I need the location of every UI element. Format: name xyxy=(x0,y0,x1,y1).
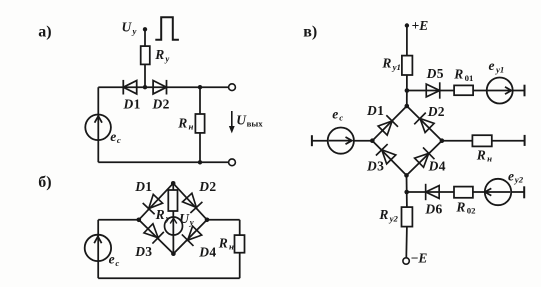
svg-text:e: e xyxy=(332,107,338,122)
wire D5 branch xyxy=(407,90,525,92)
source e_c circle xyxy=(85,115,111,141)
resistor R01 xyxy=(454,85,473,95)
node L v xyxy=(370,138,375,143)
source e_c circle b xyxy=(85,235,111,261)
diode D3 bridge v xyxy=(376,144,397,165)
wire B to Ry2 xyxy=(406,175,408,207)
svg-text:у2: у2 xyxy=(389,213,399,223)
svg-text:5: 5 xyxy=(437,66,444,81)
svg-text:U: U xyxy=(179,211,190,226)
wire L to left xyxy=(98,219,139,221)
node B v xyxy=(404,173,409,178)
svg-text:2: 2 xyxy=(163,96,170,111)
svg-text:4: 4 xyxy=(439,159,446,174)
svg-text:e: e xyxy=(489,58,495,73)
bridge v arm B-R xyxy=(407,141,442,176)
svg-text:e: e xyxy=(110,129,116,144)
svg-text:2: 2 xyxy=(209,179,216,194)
svg-text:н: н xyxy=(487,153,492,163)
source Uy circle xyxy=(165,217,183,235)
bridge v arm L-B xyxy=(372,141,406,176)
svg-text:с: с xyxy=(339,113,343,123)
svg-text:1: 1 xyxy=(145,179,152,194)
node T v xyxy=(405,104,410,109)
wire Rn branch v xyxy=(442,140,525,142)
diode D1 xyxy=(123,80,136,95)
resistor Ry b xyxy=(168,190,177,211)
node junction Rn bottom xyxy=(198,160,202,164)
svg-text:1: 1 xyxy=(134,96,141,111)
svg-text:−: − xyxy=(411,250,419,265)
wire right up xyxy=(239,220,241,278)
svg-text:3: 3 xyxy=(377,159,384,174)
bridge arm T-R xyxy=(173,183,207,220)
wire +E to Ry1 xyxy=(406,26,408,56)
svg-text:R: R xyxy=(476,147,486,162)
svg-text:R: R xyxy=(154,47,164,62)
terminal circle -E xyxy=(403,258,409,264)
svg-text:R: R xyxy=(455,199,465,214)
svg-text:D: D xyxy=(123,96,134,111)
resistor Ry2 xyxy=(402,207,413,227)
wire bottom xyxy=(98,161,228,163)
svg-text:у2: у2 xyxy=(514,175,524,185)
svg-text:R: R xyxy=(381,56,391,71)
svg-text:1: 1 xyxy=(377,103,384,118)
diode D6 xyxy=(426,184,440,200)
resistor R02 xyxy=(454,187,473,198)
svg-text:e: e xyxy=(508,168,514,183)
bridge arm L-T xyxy=(139,183,173,220)
svg-text:н: н xyxy=(229,242,234,252)
svg-text:R: R xyxy=(155,207,165,222)
source e_y1 arrow xyxy=(488,87,512,94)
svg-text:4: 4 xyxy=(209,244,216,259)
node junction diodes xyxy=(143,85,147,89)
node junction Rn top xyxy=(198,85,202,89)
terminal circle bottom xyxy=(229,159,236,166)
wire Ry2 to -E xyxy=(405,227,408,258)
resistor Rn v xyxy=(472,135,491,146)
svg-text:+: + xyxy=(412,18,420,33)
terminal bar e_y2 xyxy=(523,186,525,198)
svg-text:D: D xyxy=(198,179,209,194)
wire Ry to junction xyxy=(144,64,146,87)
svg-text:у1: у1 xyxy=(495,65,504,75)
arrow U_vyh xyxy=(231,111,233,129)
terminal bar Rn v xyxy=(524,135,526,146)
svg-text:D: D xyxy=(428,159,439,174)
node R b xyxy=(205,218,210,223)
node B b xyxy=(171,251,176,256)
svg-text:вых: вых xyxy=(247,119,264,129)
svg-text:у: у xyxy=(164,53,169,63)
pulse waveform icon xyxy=(155,17,179,40)
svg-text:D: D xyxy=(134,244,145,259)
node D6 branch xyxy=(404,190,409,195)
svg-text:D: D xyxy=(198,244,209,259)
svg-text:R: R xyxy=(453,67,463,82)
source e_c circle v xyxy=(328,128,354,154)
source Uy arrow xyxy=(170,218,177,223)
svg-text:3: 3 xyxy=(145,244,152,259)
diode D2 bridge b xyxy=(181,192,202,213)
wire Uy to Ry xyxy=(144,29,146,46)
svg-text:D: D xyxy=(426,66,437,81)
svg-text:D: D xyxy=(427,104,438,119)
wire Ry to Uy circle to B xyxy=(172,211,174,254)
resistor Ry xyxy=(141,46,150,64)
node R v xyxy=(440,138,445,143)
resistor Rn b xyxy=(235,235,245,253)
resistor Rn xyxy=(195,114,204,133)
svg-text:D: D xyxy=(366,103,377,118)
svg-text:2: 2 xyxy=(438,104,445,119)
node D5 branch xyxy=(405,88,410,93)
source e_y1 circle xyxy=(487,78,513,104)
node +E dot xyxy=(405,23,409,27)
svg-text:D: D xyxy=(134,179,145,194)
diode D5 xyxy=(426,82,440,98)
wire e_c branch v xyxy=(312,140,372,142)
wire T to Ry box xyxy=(172,183,174,190)
node L b xyxy=(137,218,142,223)
wire left down xyxy=(97,220,99,278)
bridge arm R-B xyxy=(173,220,207,254)
svg-text:а): а) xyxy=(38,24,51,41)
terminal bar e_y1 xyxy=(524,85,526,97)
diode D2 bridge v xyxy=(414,113,435,134)
wire Ry1 to bridge xyxy=(406,75,408,106)
source e_y2 circle xyxy=(485,179,511,205)
diode D3 bridge b xyxy=(143,222,164,243)
resistor Ry1 xyxy=(402,56,413,75)
svg-text:6: 6 xyxy=(436,202,443,217)
svg-text:R: R xyxy=(218,236,228,251)
svg-text:R: R xyxy=(378,207,388,222)
terminal circle top xyxy=(229,84,236,91)
wire bottom b xyxy=(98,277,240,279)
diode D1 bridge v xyxy=(377,115,398,136)
node T b xyxy=(171,181,176,186)
svg-text:н: н xyxy=(189,121,194,131)
svg-text:в): в) xyxy=(303,23,317,40)
diode D4 bridge b xyxy=(182,225,203,246)
svg-text:e: e xyxy=(109,252,115,267)
diode D4 bridge v xyxy=(413,147,434,168)
wire D6 branch xyxy=(407,191,525,193)
bridge arm L-B xyxy=(139,220,174,254)
svg-text:с: с xyxy=(117,135,121,145)
terminal bar e_c v xyxy=(311,135,313,146)
node Uy terminal dot xyxy=(143,27,147,31)
source e_c arrow xyxy=(95,116,102,123)
svg-text:б): б) xyxy=(38,174,51,191)
svg-text:E: E xyxy=(417,250,427,265)
svg-text:у: у xyxy=(189,217,194,227)
wire R to right xyxy=(207,219,240,221)
source e_y2 arrow xyxy=(485,188,510,195)
svg-text:D: D xyxy=(424,202,435,217)
wire left branch down xyxy=(97,87,99,162)
source e_c arrow v xyxy=(329,137,352,144)
svg-text:с: с xyxy=(115,258,119,268)
diode D2 xyxy=(153,80,166,95)
svg-text:у: у xyxy=(132,26,137,36)
svg-text:у1: у1 xyxy=(392,62,401,72)
svg-text:02: 02 xyxy=(467,205,476,215)
svg-text:D: D xyxy=(152,96,163,111)
wire Rn branch xyxy=(199,87,201,162)
bridge v arm L-T xyxy=(372,106,407,141)
svg-text:01: 01 xyxy=(465,73,474,83)
diode D1 bridge b xyxy=(143,193,164,214)
svg-text:R: R xyxy=(177,115,187,130)
source e_c arrow b xyxy=(94,236,101,243)
svg-text:E: E xyxy=(418,18,428,33)
svg-text:U: U xyxy=(122,20,133,35)
bridge v arm T-R xyxy=(407,106,442,141)
wire main horizontal xyxy=(98,86,228,88)
svg-text:D: D xyxy=(366,159,377,174)
